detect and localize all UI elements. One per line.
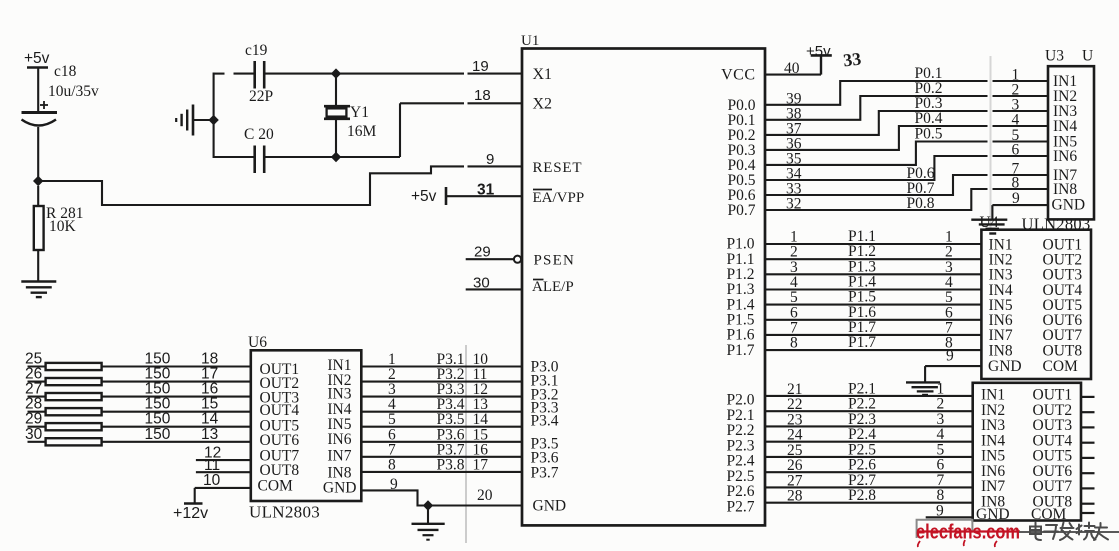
IC U4 box xyxy=(981,230,1091,379)
wire U5 OUT5 stub xyxy=(1081,457,1095,459)
svg-text:P2.8: P2.8 xyxy=(848,487,876,504)
+5V power symbol (VCC) xyxy=(811,54,832,57)
wire P1.1 to U4 IN2 xyxy=(765,258,981,260)
wire U5 OUT3 stub xyxy=(1081,426,1095,428)
node D junction xyxy=(331,152,341,162)
resistor 150 (row 30) xyxy=(46,438,102,445)
svg-text:22P: 22P xyxy=(249,88,273,105)
svg-text:ULN2803: ULN2803 xyxy=(249,503,320,522)
svg-text:+5v: +5v xyxy=(24,50,50,67)
wire resistor to U6 pin 17 xyxy=(102,381,251,383)
wire P2.7 to U5 IN8 xyxy=(765,502,973,504)
capacitor C18 xyxy=(40,104,48,106)
svg-text:P0.8: P0.8 xyxy=(907,195,935,212)
wire C19 to node C xyxy=(264,73,336,75)
svg-text:IN7: IN7 xyxy=(327,448,351,465)
wire VCC to +5V xyxy=(765,74,821,76)
svg-text:P1.7: P1.7 xyxy=(727,342,755,359)
resistor R281 xyxy=(37,186,39,206)
svg-text:GND: GND xyxy=(323,480,357,497)
node C junction xyxy=(331,68,341,78)
svg-text:c18: c18 xyxy=(54,63,77,80)
wire X2 net xyxy=(336,156,400,158)
wire +5V to C18 xyxy=(37,68,39,113)
capacitor C19 xyxy=(253,61,256,89)
svg-text:ALE/P: ALE/P xyxy=(532,279,574,295)
wire P0.6 to U3 IN7 xyxy=(765,175,988,195)
wire P0.7 to U3 IN8 xyxy=(765,189,988,210)
inversion bubble (PSEN) xyxy=(514,256,521,263)
wire U6 IN7 to P3.6 xyxy=(361,456,522,458)
wire U5 OUT6 stub xyxy=(1081,472,1095,474)
wire U6 COM to +12V xyxy=(195,487,251,489)
wire ALE/P xyxy=(466,288,522,290)
svg-text:PSEN: PSEN xyxy=(534,253,575,269)
wire P0.4 to U3 IN5 xyxy=(765,142,988,165)
crystal Y1 xyxy=(335,74,337,107)
svg-text:29: 29 xyxy=(474,244,491,261)
svg-text:40: 40 xyxy=(784,60,800,77)
resistor 150 (row 29) xyxy=(46,423,102,430)
wire P2.3 to U5 IN4 xyxy=(765,441,973,443)
svg-text:28: 28 xyxy=(787,488,803,505)
wire ground to node B xyxy=(193,119,214,121)
wire P2.5 to U5 IN6 xyxy=(765,471,973,473)
wire U6 pin 12 stub xyxy=(196,459,251,461)
resistor 150 (row 28) xyxy=(46,408,102,415)
U4 negation dash xyxy=(989,232,996,234)
svg-text:c19: c19 xyxy=(245,42,268,59)
svg-text:18: 18 xyxy=(474,87,491,104)
wire P0.5 to U3 IN6 xyxy=(765,156,988,180)
svg-text:GND: GND xyxy=(1052,197,1086,214)
wire P0.1 to U3 IN2 xyxy=(765,96,988,120)
svg-text:150: 150 xyxy=(145,426,171,443)
svg-text:10: 10 xyxy=(203,472,221,489)
wire P1.5 to U4 IN6 xyxy=(765,319,981,321)
svg-text:IN6: IN6 xyxy=(1053,148,1077,165)
svg-text:+12v: +12v xyxy=(173,505,208,522)
IC U3 box xyxy=(1048,66,1094,219)
wire U6 IN5 to P3.4 xyxy=(361,426,522,428)
op IC U1 box xyxy=(522,49,765,526)
wire P2.6 to U5 IN7 xyxy=(765,486,973,488)
svg-text:10K: 10K xyxy=(49,218,77,235)
svg-text:P1.7: P1.7 xyxy=(848,334,876,351)
IC U6 box xyxy=(251,350,361,501)
svg-text:COM: COM xyxy=(1043,358,1079,375)
svg-text:4: 4 xyxy=(1012,112,1020,129)
svg-text:13: 13 xyxy=(201,426,218,443)
svg-text:9: 9 xyxy=(946,348,954,365)
watermark frame (grey) xyxy=(917,520,973,538)
svg-text:EA/VPP: EA/VPP xyxy=(533,190,585,206)
wire P0.2 to U3 IN3 xyxy=(765,111,988,135)
wire P1.6 to U4 IN7 xyxy=(765,334,981,336)
node B junction xyxy=(208,115,218,125)
svg-text:elecfans.com: elecfans.com xyxy=(916,522,1020,544)
ground (U4 GND) xyxy=(906,381,940,383)
wire U5 OUT4 stub xyxy=(1081,442,1095,444)
svg-text:31: 31 xyxy=(477,182,495,199)
svg-text:32: 32 xyxy=(786,196,802,213)
svg-text:COM: COM xyxy=(1031,506,1067,523)
wire X1 net xyxy=(336,73,464,75)
svg-text:17: 17 xyxy=(473,456,489,473)
svg-text:IN4: IN4 xyxy=(1053,118,1077,135)
svg-text:U: U xyxy=(1082,48,1093,65)
resistor 150 (row 26) xyxy=(46,378,102,385)
resistor 150 (row 25) xyxy=(46,363,102,370)
wire P1.7 to U4 IN8 xyxy=(765,349,981,351)
svg-text:IN3: IN3 xyxy=(327,386,351,403)
scan artifact fold line left xyxy=(465,345,467,543)
ground (U6/U1 GND) xyxy=(427,506,429,524)
wire P0.3 to U3 IN4 xyxy=(765,126,988,150)
wire U5 COM stub xyxy=(1081,512,1095,514)
capacitor C20 xyxy=(253,146,256,174)
wire C20 to node D xyxy=(264,156,336,158)
svg-text:Y1: Y1 xyxy=(350,104,369,121)
svg-text:GND: GND xyxy=(988,358,1022,375)
wire P2.4 to U5 IN5 xyxy=(765,456,973,458)
wire resistor to U6 pin 16 xyxy=(102,396,251,398)
svg-text:IN8: IN8 xyxy=(989,342,1013,359)
wire P0.0 to U3 IN1 xyxy=(765,81,988,105)
svg-text:P3.4: P3.4 xyxy=(531,413,559,430)
resistor 150 (row 27) xyxy=(46,393,102,400)
svg-text:19: 19 xyxy=(472,58,489,75)
wire U5 OUT2 stub xyxy=(1081,411,1095,413)
wire U6 GND to U1 GND xyxy=(361,490,522,505)
svg-text:P2.7: P2.7 xyxy=(727,498,755,515)
watermark Chinese characters xyxy=(1030,523,1108,541)
wire U6 IN4 to P3.3 xyxy=(361,411,522,413)
svg-text:X2: X2 xyxy=(533,96,553,113)
wire P1.4 to U4 IN5 xyxy=(765,304,981,306)
watermark strike line (grey) xyxy=(1019,531,1119,533)
watermark drip marks xyxy=(918,540,997,547)
node E junction (GND) xyxy=(423,500,433,510)
svg-text:IN8: IN8 xyxy=(1053,181,1077,198)
svg-text:OUT4: OUT4 xyxy=(260,402,300,419)
wire P1.2 to U4 IN3 xyxy=(765,273,981,275)
svg-text:X1: X1 xyxy=(533,66,553,83)
svg-text:P3.8: P3.8 xyxy=(437,456,465,473)
wire resistor to U6 pin 14 xyxy=(102,426,251,428)
watermark strike line (red) xyxy=(917,530,1020,532)
ground (oscillator, rotated) xyxy=(192,105,195,136)
svg-text:P3.7: P3.7 xyxy=(531,465,559,482)
wire C18 to node A xyxy=(37,127,39,181)
wire U5 GND xyxy=(926,516,973,518)
node A junction xyxy=(33,176,43,186)
svg-text:RESET: RESET xyxy=(533,160,583,176)
scan artifact fold line right xyxy=(990,56,992,229)
svg-text:16M: 16M xyxy=(347,123,377,140)
svg-text:P0.4: P0.4 xyxy=(915,110,943,127)
wire U5 OUT7 stub xyxy=(1081,487,1095,489)
svg-text:20: 20 xyxy=(477,487,493,504)
wire resistor to U6 pin 18 xyxy=(102,365,251,367)
wire U6 IN1 to P3.0 xyxy=(361,365,522,367)
wire oscillator left rail xyxy=(213,73,215,159)
svg-text:U1: U1 xyxy=(521,33,539,49)
svg-text:8: 8 xyxy=(388,456,396,473)
wire U6 IN3 to P3.2 xyxy=(361,396,522,398)
wire U3 GND to ground xyxy=(992,204,1048,206)
svg-text:COM: COM xyxy=(258,477,294,494)
svg-text:6: 6 xyxy=(1012,142,1020,159)
svg-text:+5v: +5v xyxy=(411,188,437,205)
svg-text:U6: U6 xyxy=(248,334,267,351)
wire node A to RESET pin xyxy=(38,166,464,205)
wire P1.0 to U4 IN1 xyxy=(765,243,981,245)
ground (below R281) xyxy=(21,280,56,282)
svg-text:P0.7: P0.7 xyxy=(728,202,756,219)
IC U5 box xyxy=(973,383,1081,521)
svg-text:33: 33 xyxy=(842,48,862,70)
wire U4 GND to ground xyxy=(925,365,981,367)
wire PSEN xyxy=(466,258,514,260)
+12V power symbol xyxy=(184,502,203,505)
svg-text:C 20: C 20 xyxy=(244,126,274,143)
svg-text:30: 30 xyxy=(473,275,490,292)
svg-text:IN6: IN6 xyxy=(327,431,351,448)
wire resistor to U6 pin 13 xyxy=(102,441,251,443)
wire resistor to U6 pin 15 xyxy=(102,411,251,413)
svg-text:VCC: VCC xyxy=(721,67,755,84)
svg-text:GND: GND xyxy=(533,498,567,515)
wire U5 OUT1 stub xyxy=(1081,396,1095,398)
wire P2.2 to U5 IN3 xyxy=(765,425,973,427)
wire EA/VPP xyxy=(446,195,522,197)
svg-text:8: 8 xyxy=(1012,175,1020,192)
ground (U3 GND) xyxy=(971,218,1007,220)
wire R281 to ground xyxy=(37,250,39,282)
svg-text:U3: U3 xyxy=(1045,48,1064,65)
wire U6 IN2 to P3.1 xyxy=(361,381,522,383)
svg-text:OUT6: OUT6 xyxy=(260,432,300,449)
wire P2.0 to U5 IN1 xyxy=(765,395,973,397)
wire U6 IN6 to P3.5 xyxy=(361,441,522,443)
wire U5 OUT8 stub xyxy=(1081,503,1095,505)
svg-text:10u/35v: 10u/35v xyxy=(48,83,99,100)
svg-text:30: 30 xyxy=(25,426,43,443)
wire P1.3 to U4 IN4 xyxy=(765,288,981,290)
svg-text:P0.5: P0.5 xyxy=(915,126,943,143)
svg-text:9: 9 xyxy=(486,151,494,168)
svg-text:OUT8: OUT8 xyxy=(1043,342,1083,359)
wire U6 IN8 to P3.7 xyxy=(361,471,522,473)
svg-text:+5v: +5v xyxy=(806,43,831,60)
wire P2.1 to U5 IN2 xyxy=(765,410,973,412)
wire U6 pin 11 stub xyxy=(196,471,251,473)
svg-text:8: 8 xyxy=(790,335,798,352)
